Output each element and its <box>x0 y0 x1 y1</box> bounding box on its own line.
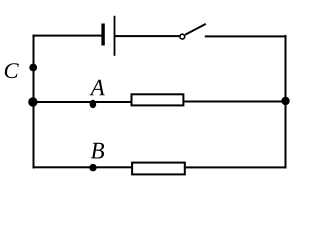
resistor R1 (branch A) <box>132 94 184 105</box>
wire: middle (A branch) right segment <box>184 101 286 103</box>
label C <box>5 63 19 78</box>
battery cell (negative plate, thick short) <box>101 24 104 46</box>
switch pivot circle <box>180 34 185 39</box>
switch blade (open) <box>185 24 206 35</box>
wire: left vertical <box>33 35 35 169</box>
wire: bottom (B branch) right segment <box>186 166 287 168</box>
node A (dot) <box>90 100 97 108</box>
wire: middle (A branch) left segment <box>33 101 132 103</box>
node C (dot) <box>29 64 37 72</box>
node B (dot) <box>89 164 96 171</box>
wire: top, battery to switch <box>115 35 180 37</box>
wire: top, switch fixed contact to right corner <box>205 35 287 37</box>
junction: left vertical with middle wire <box>28 97 37 106</box>
wire: bottom (B branch) left segment <box>33 166 133 168</box>
resistor R2 (branch B) <box>132 163 185 175</box>
junction: right vertical with middle wire <box>281 97 289 105</box>
wire: top, left segment to battery <box>33 35 102 37</box>
battery cell (positive plate, thin long) <box>114 16 116 56</box>
wire: right vertical <box>285 35 287 168</box>
label A <box>90 80 105 95</box>
label B <box>91 143 104 159</box>
